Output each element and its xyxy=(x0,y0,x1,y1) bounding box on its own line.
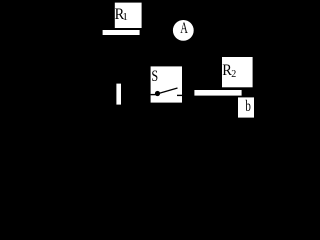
svg-text:S: S xyxy=(151,68,158,85)
svg-text:b: b xyxy=(245,98,251,115)
svg-text:A: A xyxy=(180,20,188,37)
